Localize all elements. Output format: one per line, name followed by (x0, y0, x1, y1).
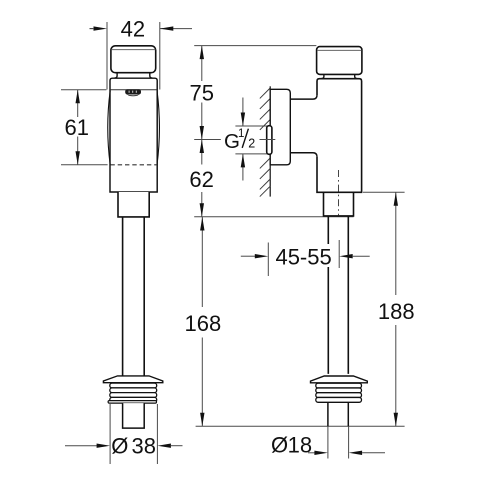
leader cross over nipple (261, 139, 275, 141)
outlet stub (side view) (328, 403, 348, 427)
wall hatching (260, 88, 270, 197)
outlet connector (side view) (324, 192, 354, 216)
GROHE logo mark (125, 89, 141, 96)
svg-text:Ø: Ø (111, 433, 128, 458)
svg-text:18: 18 (288, 432, 312, 457)
svg-text:188: 188 (378, 299, 415, 324)
label G 1/2 (224, 128, 255, 153)
extension line 188 top (363, 191, 405, 193)
push button cap (side view) (317, 47, 362, 75)
thread rings (front view) (108, 383, 157, 403)
push button cap (front view) (111, 46, 156, 73)
svg-text:45-55: 45-55 (275, 244, 331, 269)
extension line 61 top (61, 89, 106, 91)
svg-text:2: 2 (248, 136, 255, 150)
dimension 168 (185, 217, 222, 427)
G 1/2 thread dimension arrows (241, 98, 245, 181)
cap neck (front view) (114, 73, 152, 78)
cover top edge (110, 89, 156, 91)
cover bottom hidden edge (dashed) (110, 164, 157, 166)
svg-text:1: 1 (238, 128, 244, 140)
outlet centreline (dash-dot) (338, 170, 340, 216)
G 1/2 extension lines (235, 126, 268, 154)
extension line top (from cap top) (194, 45, 316, 47)
cover side bulges (front view) (108, 91, 160, 165)
svg-text:Ø: Ø (271, 432, 288, 457)
flush pipe (side view) (328, 216, 348, 374)
svg-text:61: 61 (65, 115, 89, 140)
cap neck (side view) (321, 74, 357, 78)
escutcheon plate (side view) (311, 376, 368, 383)
thread rings (side view) (316, 383, 362, 402)
dimension 62 (189, 140, 213, 217)
svg-text:38: 38 (132, 433, 156, 458)
dimension 75 (190, 46, 214, 140)
dimension 42 (90, 16, 193, 41)
extension line pipe centre for 45-55 (338, 240, 340, 268)
extension line 42 left (106, 22, 108, 90)
inlet centre leader line (194, 139, 275, 141)
dimension 188 (378, 192, 415, 426)
svg-text:75: 75 (190, 81, 214, 106)
outlet stub (front view) (123, 403, 145, 428)
dimension diameter 18 (271, 432, 385, 457)
reference line at valve bottom (194, 216, 353, 218)
extension line from wall for 45-55 (267, 243, 269, 277)
extension line 42 right (159, 22, 161, 90)
G 1/2 nipple (267, 126, 272, 155)
valve body (front view) (110, 78, 157, 192)
bottom reference line (pipe ends) (196, 425, 405, 427)
extension lines diameter 18 (328, 426, 349, 458)
dimension 61 (65, 90, 89, 165)
svg-text:168: 168 (185, 311, 222, 336)
connection nut (front view) (118, 192, 149, 217)
dimension diameter 38 (65, 433, 183, 458)
extension lines diameter 38 (110, 404, 157, 464)
wall face line (269, 86, 271, 196)
extension line 61 bottom (61, 164, 108, 166)
dimension 45-55 (241, 244, 370, 269)
wall flange (side view) (270, 89, 290, 165)
valve body (side view) (317, 79, 362, 193)
inlet connector neck (side view) (290, 95, 317, 157)
escutcheon plate (front view) (103, 376, 162, 383)
svg-text:62: 62 (189, 167, 213, 192)
svg-text:42: 42 (121, 16, 145, 41)
flush pipe (front view) (123, 217, 145, 376)
